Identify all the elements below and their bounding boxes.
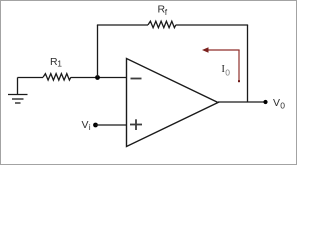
op-amp non-inverting pin plus: [130, 119, 142, 130]
svg-text:1: 1: [57, 59, 62, 69]
svg-text:V: V: [273, 97, 280, 109]
op-amp inverting pin minus: [131, 78, 142, 80]
label I0: [222, 64, 231, 78]
wire: ground to R1: [18, 77, 44, 79]
op-amp U1: [127, 59, 219, 147]
wire: feedback drop to output: [247, 25, 249, 102]
label Rf: [158, 3, 168, 17]
node Vi terminal dot: [93, 123, 98, 128]
svg-text:i: i: [89, 122, 91, 132]
node V0 terminal dot: [263, 100, 267, 104]
label V0: [273, 97, 285, 111]
svg-text:V: V: [82, 119, 89, 131]
ground: [8, 78, 28, 104]
current arrow I0: [202, 47, 240, 82]
label R1: [50, 56, 62, 69]
wire: feedback riser from node A: [97, 25, 99, 78]
wire: top feedback horizontal left segment: [97, 24, 148, 26]
svg-text:0: 0: [225, 67, 230, 77]
wire: Vi to non-inverting input: [96, 124, 127, 126]
resistor Rf: [148, 21, 176, 28]
label Vi: [82, 119, 91, 132]
wire: top feedback horizontal right segment: [176, 24, 248, 26]
node A junction dot: [95, 75, 100, 80]
wire: R1 to inverting input: [71, 77, 127, 79]
wire: output: [218, 101, 266, 103]
svg-text:0: 0: [280, 101, 285, 111]
resistor R1: [43, 74, 71, 81]
